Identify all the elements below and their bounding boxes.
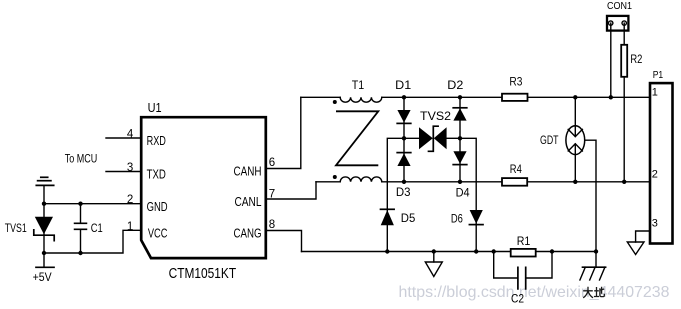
resistor R3 [502,94,528,101]
T1 bottom winding phase dot [333,175,337,179]
connector P1 [650,83,673,243]
diode D6 [469,210,483,225]
ground symbol P1 [627,242,644,255]
resistor R1 [511,249,536,257]
wire CON1 pinA to CANH [610,23,612,97]
wire M2 to D6 branch [460,138,476,251]
svg-text:2: 2 [652,169,658,181]
T1 top winding phase dot [333,100,337,104]
svg-text:P1: P1 [653,69,664,81]
svg-text:TVS1: TVS1 [5,221,27,235]
svg-text:CTM1051KT: CTM1051KT [169,265,237,282]
svg-text:D5: D5 [401,213,416,225]
svg-text:D6: D6 [451,214,463,226]
svg-text:3: 3 [652,218,658,230]
svg-text:TXD: TXD [147,167,166,182]
diode D2 [453,108,467,121]
svg-text:To MCU: To MCU [65,153,98,165]
node D3 bottom [402,180,406,184]
svg-text:https://blog.csdn.net/weixin_4: https://blog.csdn.net/weixin_44407238 [399,284,670,301]
capacitor C2 [494,252,552,289]
transformer T1 core Z [336,111,378,165]
svg-text:2: 2 [127,194,133,206]
svg-text:3: 3 [127,162,133,174]
svg-text:C2: C2 [511,292,524,306]
svg-text:VCC: VCC [148,225,168,240]
node GDT top [573,95,577,99]
node D1 top [402,95,406,99]
diode D1 column wire [403,97,405,182]
svg-text:GND: GND [147,199,168,214]
wire R2 to CANL [623,77,625,182]
TVS diode TVS1 [34,217,54,241]
earth symbol [580,252,606,281]
svg-text:GDT: GDT [540,135,559,147]
node TVS1-GND junction [42,202,46,206]
ground symbol on CANG line [425,252,442,277]
wire P1 pin3 to ground [636,231,650,242]
node earth junction [594,249,598,253]
wire pin 4 [106,137,141,139]
diode D5 [381,209,395,225]
node D4 bottom [458,180,462,184]
wire CANH [301,96,650,98]
diode D3 [397,153,411,166]
wire CANG [302,251,597,253]
svg-text:CANH: CANH [234,164,262,179]
node M2 [458,136,462,140]
node D5 bottom [385,249,389,253]
svg-text:4: 4 [127,129,134,141]
svg-text:RXD: RXD [147,133,166,148]
resistor R2 [621,45,627,77]
TVS diode TVS2 [404,126,460,151]
svg-text:6: 6 [269,157,275,169]
node TVS1-rail junction [42,251,46,255]
diode D1 [397,110,411,123]
svg-text:C1: C1 [91,221,103,235]
svg-text:+5V: +5V [33,272,52,284]
connector CON1 [607,16,628,31]
svg-text:D2: D2 [447,78,463,92]
svg-text:CANL: CANL [235,194,262,209]
svg-text:1: 1 [652,87,658,99]
svg-text:R1: R1 [517,234,531,248]
ground earth symbol above TVS1 [36,177,53,185]
svg-text:R4: R4 [510,162,522,176]
svg-text:R2: R2 [630,52,642,66]
svg-text:D3: D3 [396,187,411,199]
node GDT bottom [573,180,577,184]
diode D4 [453,151,467,164]
node C2 right [550,249,554,253]
svg-text:CON1: CON1 [607,0,632,12]
svg-text:D1: D1 [395,78,411,92]
svg-text:T1: T1 [352,78,365,92]
node D2 top [458,95,462,99]
wire +5V rail to VCC pin1 [44,230,141,253]
svg-text:R3: R3 [509,75,522,89]
transformer T1 bottom winding [340,177,382,182]
IC U1 CTM1051KT box [141,117,266,258]
node R2-CANL junction [622,180,626,184]
svg-text:TVS2: TVS2 [420,109,451,123]
svg-text:CANG: CANG [234,226,262,241]
node M1 [402,136,406,140]
capacitor C1 [75,204,87,253]
wire pin 3 [106,171,141,173]
svg-text:8: 8 [269,219,275,231]
wire TVS1 column [43,185,45,267]
node C2 left [492,249,496,253]
wire M1 to D5 branch [387,138,404,251]
node ground stem [432,249,436,253]
+5V power bar [36,266,54,268]
wire pin 8 [266,231,302,252]
node D6 bottom [474,249,478,253]
node C1-GND junction [78,202,82,206]
wire CON1 pinB to R2 [623,23,625,45]
diode D2 column wire [459,97,461,182]
resistor R4 [502,178,527,186]
wire CANL [316,181,650,183]
node CON1-CANH junction [609,95,613,99]
svg-text:D4: D4 [456,188,471,200]
transformer T1 top winding [340,97,382,102]
svg-text:1: 1 [127,221,133,233]
svg-text:U1: U1 [148,101,162,115]
gas discharge tube GDT [566,97,596,251]
wire pin 6 [266,97,301,168]
label earth (Chinese da di) [583,287,604,298]
wire GND pin2 [44,203,141,205]
wire pin 7 [266,182,316,199]
node C1-rail junction [78,251,82,255]
